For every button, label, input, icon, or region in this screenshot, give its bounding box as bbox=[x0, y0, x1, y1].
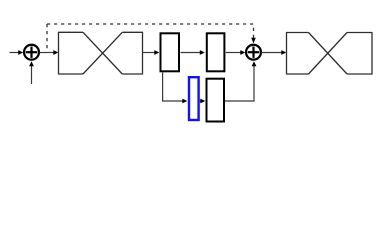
wire blue rect C to rect D bbox=[200, 99, 206, 104]
wire block B1 to rect A bbox=[143, 50, 160, 55]
wire bottom input arrow into adder S1 bbox=[29, 61, 34, 84]
rect C (blue tall thin box, bottom row) bbox=[189, 77, 199, 120]
wire rect A to rect B bbox=[181, 50, 205, 55]
block B2 (butterfly / crossover block) bbox=[287, 33, 373, 75]
wire branch from rect A bottom down and right into blue rect C bbox=[163, 73, 188, 104]
dashed feed-forward wire from main line up, across, down into adder S2 top bbox=[47, 24, 254, 51]
rect B (tall thin box, top row) bbox=[207, 33, 225, 71]
adder S1 (circle with plus) bbox=[24, 45, 39, 60]
wire adder S2 to block B2 bbox=[262, 50, 287, 55]
block B1 (butterfly / crossover block) bbox=[59, 32, 143, 74]
wire rect D up into adder S2 bottom bbox=[225, 61, 256, 101]
rect A (tall thin box, top row) bbox=[161, 33, 180, 71]
rect D (tall thin box, bottom row) bbox=[207, 79, 225, 122]
wire rect B to adder S2 bbox=[226, 50, 246, 55]
wire input arrow into adder S1 bbox=[10, 50, 24, 55]
adder S2 (circle with plus) bbox=[246, 45, 261, 60]
arrowhead of dashed wire into adder S2 bbox=[251, 38, 256, 44]
wire adder S1 to block B1 bbox=[40, 50, 59, 55]
